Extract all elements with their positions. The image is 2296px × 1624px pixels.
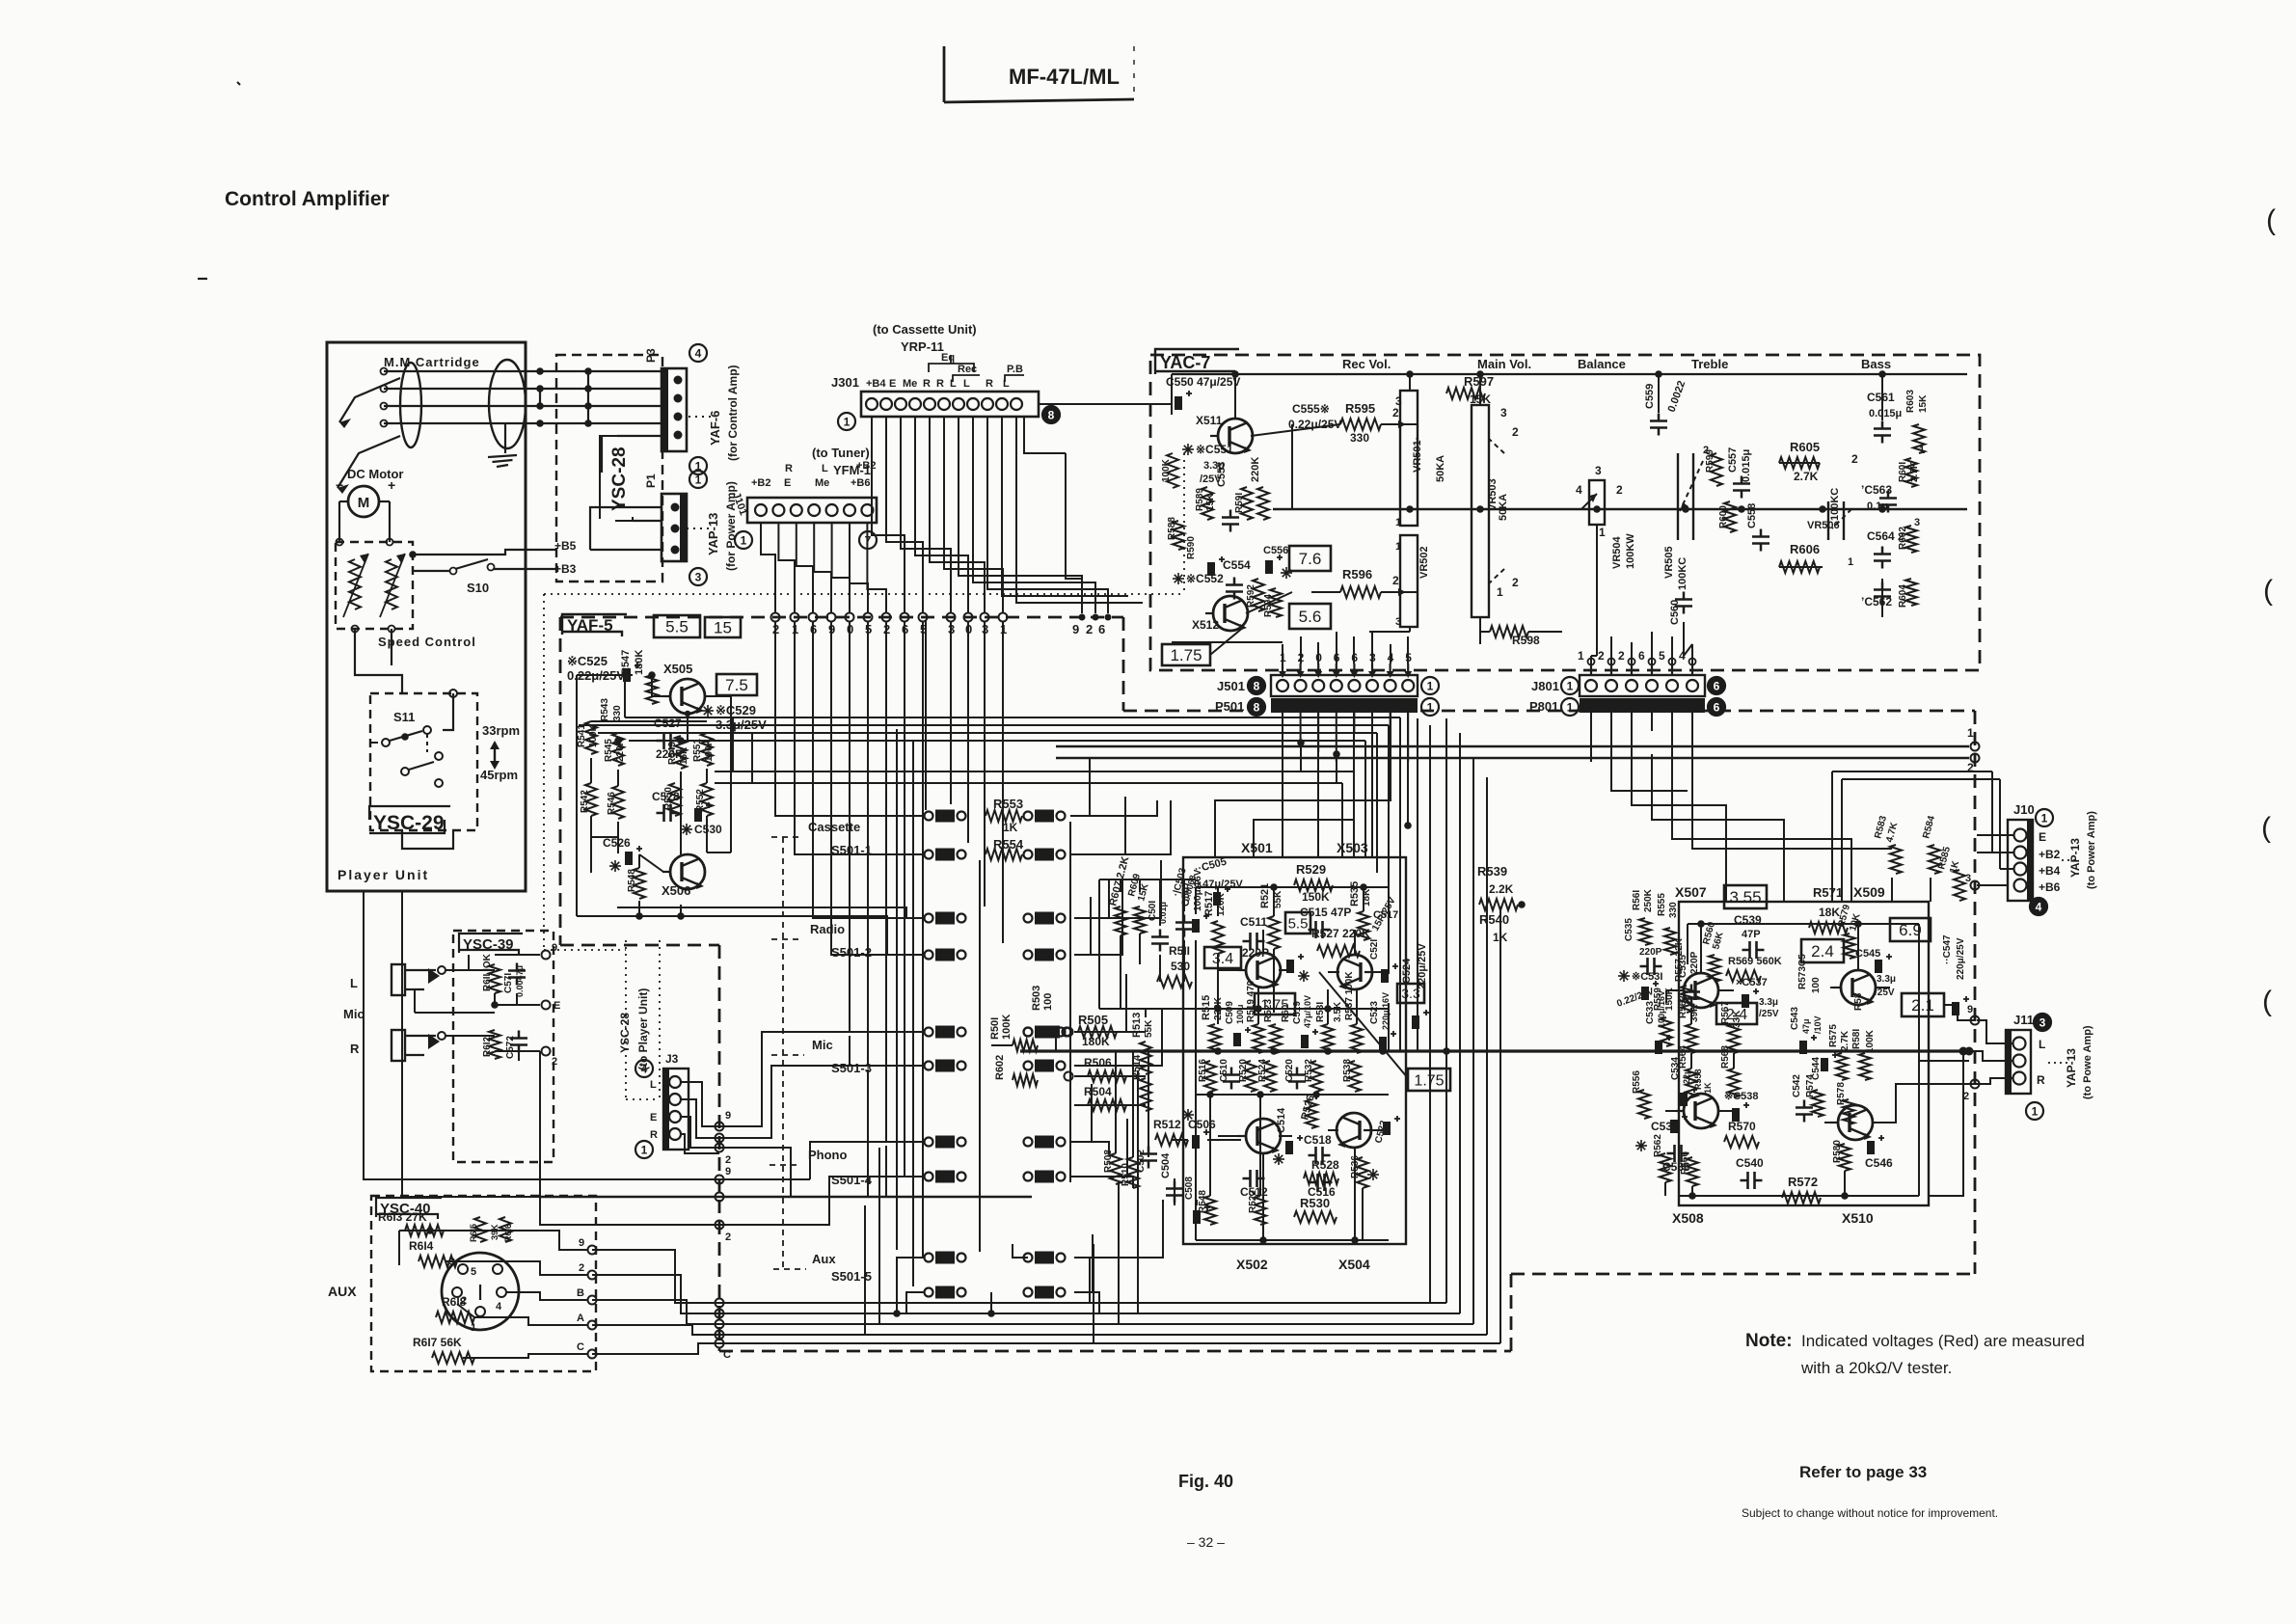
svg-text:530: 530 (1171, 960, 1190, 973)
svg-text:3.5K: 3.5K (1333, 1001, 1343, 1022)
svg-text:1: 1 (1919, 445, 1925, 456)
switch S501-3 mic blocks (925, 1026, 1066, 1072)
svg-text:··C505: ··C505 (1194, 856, 1229, 876)
wire vert group right of center (1418, 718, 1430, 1303)
wire matrix vertical a (896, 729, 898, 1250)
circled 8 J301 (1042, 406, 1060, 423)
svg-text:5.6: 5.6 (1299, 608, 1322, 626)
svg-text:C523: C523 (1369, 1001, 1380, 1024)
ysc39 wires (415, 942, 560, 1068)
svg-text:X505: X505 (663, 662, 692, 676)
note text (1745, 1331, 2085, 1377)
connector P801 (1529, 698, 1705, 716)
label J101 (730, 491, 749, 517)
wire cartridge-P3 (381, 420, 664, 427)
resistor R574 (1805, 1074, 1823, 1117)
capacitor C557 (1727, 447, 1752, 499)
svg-text:C: C (577, 1341, 584, 1353)
wire x501 rails (1196, 1005, 1389, 1098)
capacitor C532 (1635, 1114, 1688, 1151)
wire bundle 4 (592, 777, 1487, 1335)
wire yac7 top rail (1172, 370, 1967, 420)
label 3.5K (1333, 1001, 1343, 1022)
wire aux col to bundle b (878, 1148, 880, 1324)
svg-text:VR506: VR506 (1807, 520, 1840, 531)
capacitor C538 (1678, 951, 1700, 1006)
svg-text:YAC-7: YAC-7 (1160, 353, 1210, 372)
svg-text:9: 9 (552, 942, 557, 954)
svg-text:1: 1 (641, 1144, 648, 1157)
svg-text:R574: R574 (1805, 1074, 1816, 1097)
wire vr501 tap (1400, 424, 1418, 592)
ecap C514 (1273, 1107, 1303, 1165)
svg-text:/10V: /10V (1813, 1015, 1823, 1034)
svg-text:L: L (963, 378, 970, 390)
label Mic (771, 1038, 833, 1055)
svg-text:3.3μ: 3.3μ (1759, 997, 1778, 1008)
wire +B3 row (412, 570, 414, 572)
svg-text:C543: C543 (1790, 1007, 1800, 1030)
svg-text:1: 1 (695, 474, 702, 487)
wire run drops (1342, 717, 1400, 1051)
svg-text:Phono: Phono (808, 1148, 847, 1162)
connector P3 (644, 348, 687, 451)
svg-text:R513: R513 (1131, 1013, 1143, 1038)
wire P1 feeds (590, 436, 662, 550)
mic jack R (350, 1030, 446, 1061)
J801 pin stubs (1578, 649, 1696, 675)
circled 1 J3 (635, 1141, 653, 1158)
resistor R560 (1701, 920, 1726, 982)
svg-text:R: R (785, 463, 793, 474)
svg-text:(to Tuner): (to Tuner) (812, 446, 870, 460)
svg-text:1: 1 (844, 416, 851, 429)
voltage box 7.5 (716, 674, 757, 695)
svg-text:R56I: R56I (1632, 890, 1642, 910)
resistor R614 (409, 1239, 457, 1267)
svg-text:R548: R548 (627, 869, 637, 892)
svg-text:R557 22K: R557 22K (1674, 937, 1685, 982)
capacitor C534 (1670, 1057, 1697, 1106)
label C526 (603, 836, 642, 872)
svg-text:R603: R603 (1905, 390, 1916, 413)
switch S501-4 phono blocks (925, 1136, 1066, 1183)
svg-text:9: 9 (1072, 622, 1079, 636)
transistor X505 (662, 662, 705, 714)
wire x510 line (1817, 1197, 1819, 1199)
pot VR503 (1472, 405, 1519, 617)
wire yaf5 mid (591, 721, 707, 854)
pot VR502 (1395, 535, 1430, 628)
capacitor C518 (1304, 1133, 1332, 1164)
svg-text:2: 2 (579, 1262, 584, 1274)
circled 1 J301 (838, 413, 855, 430)
transistor X501 (1238, 953, 1281, 988)
resistor R583 (1873, 814, 1902, 874)
label 100KC bass (1829, 488, 1841, 521)
transistor X510 (1830, 1105, 1873, 1140)
svg-text:220K: 220K (1250, 457, 1261, 482)
label X504 (1338, 1257, 1370, 1272)
svg-text:(to Cassette Unit): (to Cassette Unit) (873, 322, 977, 337)
J10 pin labels (2039, 830, 2061, 894)
svg-text:※C551: ※C551 (1196, 443, 1233, 456)
YAF-5 label box (562, 614, 627, 636)
resistor R584 (1921, 814, 1940, 874)
svg-text:1: 1 (1848, 556, 1853, 568)
wire motor to speed control (337, 501, 393, 546)
svg-text:1: 1 (1395, 541, 1401, 553)
svg-text:2: 2 (725, 1154, 731, 1166)
resistor R543 (600, 698, 623, 721)
connector J301 (861, 392, 1039, 417)
wire yac7 right lower (1684, 463, 1882, 656)
ecap C513 (1286, 954, 1310, 982)
label C545 (1855, 948, 1892, 973)
svg-text:R568: R568 (1720, 1045, 1731, 1069)
wire J3 out (681, 1082, 719, 1153)
svg-text:R602: R602 (994, 1055, 1006, 1080)
resistor R60x (1281, 1004, 1291, 1022)
svg-text:100KC: 100KC (1829, 488, 1841, 521)
ecap C525 (623, 663, 640, 682)
wire yaf5 to radio row (617, 907, 924, 955)
node col bundle (716, 1299, 732, 1362)
pot VR505 (1663, 445, 1709, 590)
svg-text:(: ( (2262, 986, 2272, 1017)
svg-text:2: 2 (1851, 452, 1858, 466)
wire P501 long drops (1215, 713, 1412, 857)
svg-text:3: 3 (1965, 873, 1971, 884)
svg-text:Main Vol.: Main Vol. (1477, 357, 1531, 371)
circled 1 P1 (689, 471, 707, 488)
page number (1187, 1534, 1225, 1550)
transistor X511 (1196, 414, 1253, 453)
resistor R596 (1340, 567, 1406, 598)
circled right P501 (1421, 698, 1439, 716)
svg-text:15K: 15K (1918, 394, 1929, 413)
resistor R517 (1203, 891, 1227, 954)
fig caption (1178, 1472, 1233, 1491)
resistor R600 (1718, 501, 1736, 532)
svg-text:7.5: 7.5 (725, 676, 748, 694)
label J301 pins (831, 375, 1010, 390)
YAF-5 dashed outline left lower (560, 945, 719, 1351)
aux outputs (577, 1237, 597, 1359)
svg-text:C506: C506 (1188, 1118, 1216, 1131)
wire P501 drops (1283, 713, 1408, 762)
svg-text:R6I3 27K: R6I3 27K (378, 1210, 427, 1224)
wire heavy run e (1056, 726, 1980, 751)
svg-text:−: − (336, 477, 343, 493)
margin mark 1 (2266, 204, 2276, 236)
svg-text:2: 2 (725, 1232, 731, 1243)
label C531 (1615, 970, 1662, 1010)
svg-text:R558: R558 (1693, 1069, 1703, 1090)
resistor R589 (1195, 487, 1216, 520)
wire bus tail right (1929, 1051, 1963, 1196)
capacitor C509 (1225, 1001, 1251, 1046)
wire yac7 to J501 (1283, 632, 1408, 663)
svg-text:L: L (650, 1079, 657, 1091)
svg-text:C564: C564 (1867, 529, 1895, 543)
resistor R535 (1349, 881, 1372, 940)
svg-text:100KW: 100KW (1625, 533, 1636, 569)
svg-text:100K: 100K (1001, 1015, 1013, 1040)
switch S501-2 radio blocks (925, 912, 1066, 961)
capacitor C539 (1734, 913, 1765, 959)
svg-text:1: 1 (471, 1322, 476, 1334)
resistor R536 (1350, 1155, 1368, 1188)
wire p801 to block (1591, 718, 1892, 902)
resistor R526 (1299, 1094, 1317, 1128)
svg-text:A: A (577, 1313, 584, 1324)
wire aux right exits (1070, 800, 1171, 854)
svg-text:※C53I: ※C53I (1632, 971, 1662, 983)
svg-text:C559: C559 (1644, 384, 1656, 409)
svg-text:3.3μ: 3.3μ (1877, 974, 1896, 985)
voltage box 1.75 yac7 (1162, 644, 1210, 665)
YSC-39 label box (459, 934, 523, 955)
circled 1 J10 (2036, 809, 2053, 826)
svg-text:R58I: R58I (1851, 1029, 1862, 1049)
connector J501 (1217, 675, 1418, 696)
svg-text:Treble: Treble (1691, 357, 1728, 371)
resistor R529 (1294, 862, 1333, 904)
capacitor C511 (1240, 915, 1269, 960)
label S501-2 (831, 945, 872, 960)
resistor R523 (1263, 999, 1282, 1053)
heading Control Amplifier (225, 188, 390, 210)
circled 3 P1 (689, 568, 707, 585)
svg-text:S501-3: S501-3 (831, 1061, 872, 1075)
wire left long verticals (850, 621, 926, 1197)
voltage box 15 (705, 617, 741, 637)
svg-text:R: R (350, 1042, 360, 1056)
resistor R594 (1263, 588, 1282, 617)
svg-text:S501-2: S501-2 (831, 945, 872, 960)
svg-text:L: L (2039, 1038, 2045, 1051)
svg-text:R540: R540 (1479, 912, 1509, 927)
svg-text:R: R (650, 1129, 658, 1141)
capacitor C571 (503, 963, 526, 998)
svg-text:2: 2 (1512, 425, 1519, 439)
svg-text:55K: 55K (1144, 1019, 1154, 1038)
YSC-40 label box (376, 1198, 442, 1219)
ecap C552 (1173, 556, 1225, 585)
svg-text:Mic: Mic (343, 1007, 365, 1021)
label C521 (1369, 939, 1398, 983)
cluster wires (991, 880, 1241, 1205)
svg-text:AUX: AUX (328, 1284, 357, 1299)
label X507 (1675, 884, 1707, 900)
svg-text:(to Powe Amp): (to Powe Amp) (2082, 1025, 2093, 1099)
svg-text:R512: R512 (1153, 1118, 1181, 1131)
circled right P801 (1708, 698, 1725, 716)
svg-text:9: 9 (579, 1237, 584, 1249)
corridor dashed (1123, 617, 1975, 711)
voltage box 3.4 (1204, 947, 1241, 968)
YSC-28 dashed box (556, 355, 662, 582)
svg-text:Control Amplifier: Control Amplifier (225, 188, 390, 210)
resistor R578 (1836, 1082, 1854, 1124)
svg-text:C504: C504 (1160, 1152, 1172, 1178)
svg-text:R506: R506 (1084, 1056, 1112, 1069)
resistor R510 (1121, 1157, 1139, 1188)
svg-text:MF-47L/ML: MF-47L/ML (1009, 65, 1120, 89)
svg-text:6: 6 (1714, 680, 1720, 693)
svg-text:220P: 220P (1689, 951, 1700, 974)
svg-text:+B2: +B2 (856, 460, 877, 472)
cartridge stylus arrows (338, 378, 400, 494)
svg-text:/25V: /25V (1875, 988, 1895, 998)
wire mid spread (1070, 880, 1133, 1188)
svg-text:R605: R605 (1790, 440, 1820, 454)
svg-text:1: 1 (1427, 680, 1434, 693)
wire long run b (579, 724, 1389, 726)
svg-text:+B3: +B3 (554, 562, 577, 576)
switch S501-1 cassette blocks (925, 810, 1066, 861)
ecap C556 (1263, 545, 1292, 579)
svg-text:+: + (388, 477, 395, 493)
dotted J11 (2048, 1062, 2067, 1064)
svg-text:3: 3 (1500, 406, 1507, 420)
switch S10 (413, 559, 556, 595)
svg-text:330: 330 (1668, 902, 1679, 918)
YSC-28 label (600, 436, 633, 521)
resistor R550 (663, 783, 681, 816)
resistor R571 (1809, 885, 1848, 934)
resistor R580 (1832, 1140, 1850, 1171)
svg-text:3: 3 (1395, 394, 1402, 408)
svg-text:8: 8 (1254, 680, 1260, 693)
capacitor C515 (1300, 906, 1351, 938)
svg-text:R522: R522 (1248, 1190, 1258, 1213)
label C529 (702, 703, 767, 732)
resistor R506 (1065, 1056, 1127, 1082)
resistor R539 (1477, 864, 1526, 910)
variable resistor VR-A (343, 554, 368, 617)
svg-text:100μ/16V: 100μ/16V (1657, 990, 1666, 1028)
label Bass (1861, 357, 1891, 371)
svg-text:L: L (822, 463, 828, 474)
wire cartridge-P3 (381, 402, 664, 410)
svg-text:Rec Vol.: Rec Vol. (1342, 357, 1391, 371)
svg-text:C535: C535 (1624, 918, 1634, 941)
label S501-1 (831, 843, 872, 857)
pot VR504 balance (1576, 464, 1636, 569)
ground (488, 423, 517, 467)
label Cassette (771, 820, 860, 837)
resistor R572 (1782, 1175, 1821, 1204)
wire yaf5 out (648, 671, 688, 741)
voltage box 6.9 (1890, 918, 1931, 941)
svg-text:C540: C540 (1736, 1156, 1764, 1170)
label Aux (773, 1252, 836, 1269)
resistor R569 (1726, 956, 1782, 982)
svg-text:※C529: ※C529 (716, 703, 756, 717)
svg-text:2.7K: 2.7K (1840, 1030, 1850, 1051)
wire speed to +B5 (409, 550, 556, 558)
svg-text:3.55: 3.55 (1729, 888, 1761, 907)
resistor R603 (1905, 390, 1929, 453)
svg-text:YSC-28: YSC-28 (609, 447, 630, 511)
wire matrix vertical c (979, 860, 981, 1252)
svg-text:VR504: VR504 (1611, 535, 1623, 569)
svg-text:P.B: P.B (1007, 364, 1023, 375)
svg-text:1: 1 (1567, 701, 1574, 715)
label 50KA v1 (1435, 455, 1446, 482)
svg-text:X501: X501 (1241, 840, 1273, 855)
label to Cassette Unit (873, 322, 977, 337)
svg-text:2.4: 2.4 (1811, 942, 1834, 961)
svg-text:47μ/10V: 47μ/10V (1303, 995, 1312, 1028)
resistor R508 (1103, 1150, 1121, 1184)
wire heavy run f (1056, 754, 1980, 775)
svg-text:Eq: Eq (941, 352, 955, 364)
svg-text:Mic: Mic (812, 1038, 833, 1052)
resistor R515 (1201, 995, 1224, 1053)
svg-text:220μ/25V: 220μ/25V (1956, 937, 1966, 980)
svg-text:15: 15 (714, 619, 732, 637)
YSC-39 dashed box (453, 931, 554, 1162)
label Phono (770, 1148, 847, 1165)
wire yac7 lower rail (1172, 525, 1597, 656)
svg-text:R596: R596 (1342, 567, 1372, 582)
svg-text:C533: C533 (1645, 1001, 1656, 1024)
svg-text:Indicated voltages (Red) are m: Indicated voltages (Red) are measured (1801, 1332, 2085, 1350)
svg-text:2: 2 (1086, 622, 1093, 636)
svg-text:2: 2 (1598, 649, 1605, 663)
label bass pin1 (1848, 445, 1925, 568)
label C543 (1797, 954, 1822, 993)
svg-text:6: 6 (1714, 701, 1720, 715)
resistor R518 (1198, 1190, 1216, 1225)
circled 7 tuner (859, 531, 877, 549)
resistor R603b (1031, 986, 1054, 1011)
label C551 (1182, 443, 1233, 485)
svg-text:C557: C557 (1727, 447, 1739, 473)
svg-text:※C525: ※C525 (567, 654, 608, 668)
svg-text:4: 4 (641, 1063, 648, 1076)
wire aux col to bundle a (864, 1205, 866, 1335)
wire yac7 mid rail (1273, 505, 1967, 513)
resistor R591 (1234, 487, 1253, 520)
svg-text:C518: C518 (1304, 1133, 1332, 1147)
svg-text:YAP-13: YAP-13 (2065, 1048, 2078, 1088)
svg-text:X511: X511 (1196, 414, 1223, 427)
svg-text:+B4: +B4 (2039, 864, 2061, 878)
resistor R609 (1126, 872, 1151, 934)
resistor R538 (1342, 1059, 1361, 1092)
svg-text:R566: R566 (1680, 1151, 1690, 1175)
svg-text:100K: 100K (1865, 1029, 1876, 1053)
label 3.3u25v (1853, 974, 1896, 1011)
J3 pin labels (650, 1079, 658, 1141)
svg-text:X512: X512 (1192, 618, 1219, 632)
voltage box 7.6 (1289, 546, 1331, 571)
svg-text:(: ( (2266, 204, 2276, 236)
wire mid connectors (625, 716, 752, 783)
svg-text:4: 4 (496, 1301, 502, 1313)
svg-text:R607 2.2K: R607 2.2K (1107, 855, 1131, 907)
resistor R605 (1779, 440, 1820, 483)
svg-text:22μ: 22μ (1682, 1069, 1691, 1084)
svg-text:X502: X502 (1236, 1257, 1268, 1272)
svg-text:2.2K: 2.2K (1489, 882, 1514, 896)
svg-text:R523: R523 (1263, 999, 1274, 1022)
label Treble (1691, 357, 1728, 371)
